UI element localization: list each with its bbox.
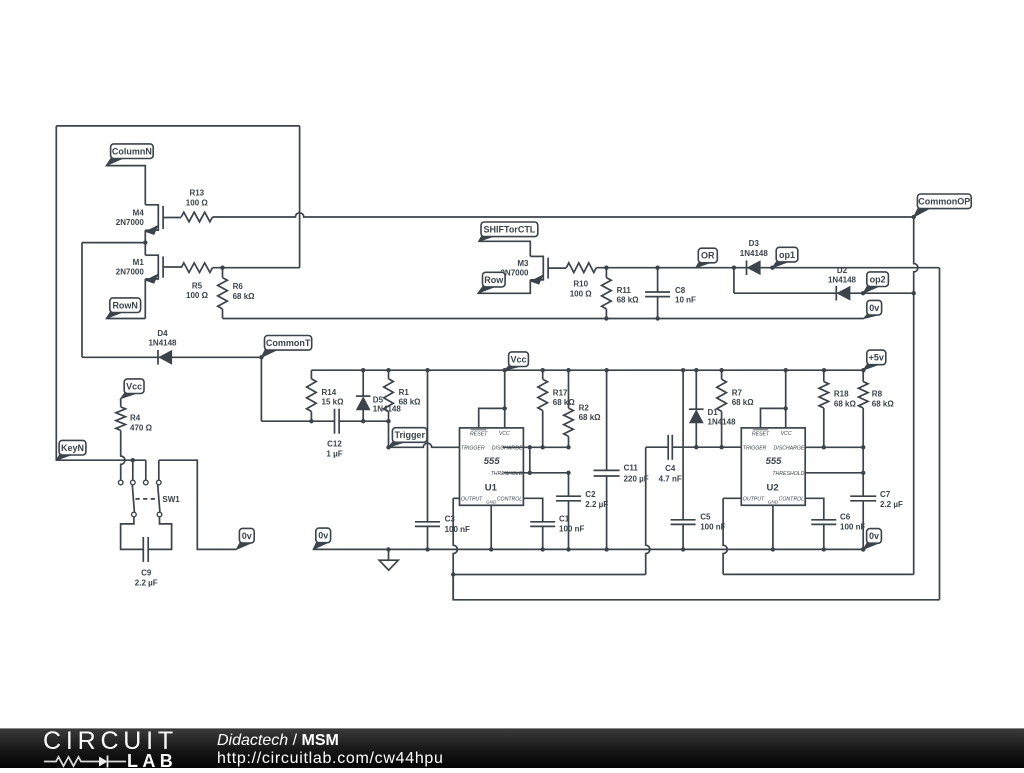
svg-text:555: 555 [766,456,783,467]
node Vcc flag at R4 [121,392,138,399]
op-amp U1 555 timer box [460,428,524,505]
resistor R7 68 kOhm [721,370,723,379]
node RowN flag [106,311,123,319]
resistor R10 100 Ohm [566,263,596,273]
capacitor C6 100 nF [811,519,836,521]
svg-text:RESET: RESET [752,431,770,437]
switch SW1 pushbutton [132,460,134,480]
svg-text:C2: C2 [585,490,596,499]
svg-text:15 kΩ: 15 kΩ [322,398,345,407]
wire U2 CONTROL to C6 [805,498,824,520]
node ColumnN flag [106,157,123,166]
junction Trigger node [386,445,390,449]
diode D5 1N4148 [362,370,364,396]
svg-text:2N7000: 2N7000 [116,218,145,227]
svg-text:GND: GND [768,499,779,504]
svg-text:VCC: VCC [781,431,792,437]
svg-text:CONTROL: CONTROL [497,497,522,503]
junction CommonT node [259,355,263,359]
capacitor C7 2.2uF [850,495,876,497]
svg-text:D3: D3 [749,239,760,248]
capacitor C9 2.2uF [142,537,144,562]
svg-text:2N7000: 2N7000 [116,268,145,277]
svg-text:M4: M4 [133,208,145,217]
resistor R1 68 kOhm [388,370,390,379]
wire U1 RESET jumper to VCC [479,408,505,428]
wire R8 column threshold to C7 [862,447,864,496]
junction op2 row / CommonOP vertical [912,291,916,295]
wire R10 to OR row [596,267,734,269]
svg-text:100 Ω: 100 Ω [570,289,593,298]
svg-text:op2: op2 [870,274,886,284]
svg-text:100 Ω: 100 Ω [186,291,209,300]
node 0v flag at switch [236,541,252,549]
wire KeyN row [56,459,146,461]
junction R5/R6 node [220,266,224,270]
junction 0v right node [861,547,865,551]
ground symbol [388,549,390,560]
wire U1 CONTROL to C1 [523,498,542,522]
svg-text:4.7 nF: 4.7 nF [659,475,682,484]
svg-text:470 Ω: 470 Ω [130,423,153,432]
wire 0v main rail [313,548,863,550]
svg-text:C5: C5 [700,513,711,522]
svg-text:R11: R11 [617,286,632,295]
wire switch poles to C9 box [121,517,144,550]
svg-text:CommonOP: CommonOP [918,197,970,207]
diode D2 1N4148 [835,286,837,301]
wire output branch to C4 vertical [453,574,646,576]
node Vcc flag mid rail [505,365,522,371]
junction M4/M1 node [143,240,147,244]
svg-text:220 µF: 220 µF [624,475,649,484]
node KeyN flag [56,453,72,460]
junction U1 output branch [451,572,455,576]
resistor R18 68 kOhm [823,370,825,381]
wire C4-left vertical (hop over 0v rail) [646,447,650,574]
svg-text:C9: C9 [141,569,152,578]
wire D2 row [733,268,735,294]
wire U1 THRESHOLD row [503,472,568,474]
node Row flag [478,285,496,293]
junction op2 anchor [861,291,865,295]
wire R14/C12/D5/R1 bottom row [261,420,334,422]
wire 0v rail from R6 bottom to mid 0v flag [223,318,864,320]
svg-text:0v: 0v [869,303,879,313]
footer text [217,732,444,767]
svg-text:OUTPUT: OUTPUT [461,497,483,503]
resistor R4 470 Ohm [120,399,122,407]
node 0v flag left [313,541,329,550]
svg-text:Row: Row [484,275,504,285]
wire U2 GND lead [772,505,774,549]
resistor R8 68 kOhm [862,370,864,382]
junction C8 bottom [655,316,659,320]
svg-text:10 nF: 10 nF [675,296,696,305]
wire M1 source down to RowN [144,279,146,319]
svg-text:C6: C6 [840,513,851,522]
svg-text:CommonT: CommonT [266,338,311,348]
svg-text:2.2 µF: 2.2 µF [135,578,158,587]
svg-text:R14: R14 [322,388,337,397]
svg-text:R4: R4 [130,414,141,423]
node CommonOP flag [914,207,931,217]
svg-text:R5: R5 [192,281,203,290]
svg-text:100 nF: 100 nF [445,525,470,534]
junction R14 bottom [309,419,313,423]
wire op1 row [734,267,940,269]
svg-text:RowN: RowN [112,300,138,310]
svg-text:TRIGGER: TRIGGER [461,446,485,452]
svg-text:SW1: SW1 [162,495,180,504]
transistor M1 2N7000 [145,254,158,256]
svg-text:+5v: +5v [869,353,884,363]
junction U2 reset/vcc [784,406,788,410]
wire U1 OUTPUT down (hop over 0v rail) [453,497,459,499]
node +5v flag [863,363,879,370]
svg-text:2.2 µF: 2.2 µF [880,500,903,509]
wire SHIFTorCTL to M3 drain [479,241,531,256]
op-amp U2 555 timer box [741,428,805,505]
node op2 flag [863,285,880,294]
svg-text:C8: C8 [675,286,686,295]
resistor R17 68 kOhm [542,370,544,379]
capacitor C8 10 nF [657,268,659,292]
node 0v flag right bottom [863,541,879,549]
logo squiggle diode [99,757,108,767]
svg-text:DISCHARGE: DISCHARGE [774,445,805,451]
wire U1 DISCHARGE row [502,446,568,448]
transistor M4 2N7000 [145,204,158,206]
svg-text:C12: C12 [327,440,342,449]
junction R10/R11 node [604,266,608,270]
svg-text:D4: D4 [157,329,168,338]
wire discharge-threshold link [529,447,531,473]
svg-text:OR: OR [701,251,715,261]
svg-text:R10: R10 [573,280,588,289]
svg-text:1 µF: 1 µF [326,449,342,458]
svg-text:U1: U1 [485,483,498,494]
svg-text:555: 555 [484,456,501,467]
resistor R13 100 Ohm [181,212,212,222]
svg-text:C4: C4 [665,464,676,473]
diode D1 1N4148 [695,370,697,409]
svg-text:ColumnN: ColumnN [112,146,152,156]
resistor R6 68 kOhm [222,268,224,278]
svg-text:100 nF: 100 nF [700,522,725,531]
transistor M3 2N7000 [530,255,543,257]
wire switch right terminal to 0v [159,460,237,549]
svg-text:VCC: VCC [499,431,510,437]
svg-text:C1: C1 [559,515,570,524]
svg-text:D5: D5 [373,395,384,404]
svg-text:C7: C7 [880,490,891,499]
wire U1 output bottom run to op1 vertical [453,575,939,600]
capacitor C12 1uF [334,409,336,434]
capacitor C5 100 nF [682,370,684,520]
svg-text:68 kΩ: 68 kΩ [834,399,857,408]
wire U2 output run to CommonOP vertical [723,573,914,575]
wire U2 RESET jumper to VCC [761,408,786,428]
resistor R2 68 kOhm [568,370,570,408]
svg-text:R8: R8 [872,390,883,399]
svg-text:R18: R18 [834,390,849,399]
wire R1 bottom to Trigger node [388,421,390,447]
svg-text:op1: op1 [779,250,795,260]
svg-text:100 Ω: 100 Ω [186,199,209,208]
wire U1 GND lead [490,505,492,549]
wire left branch vertical down to D4 row [81,243,83,358]
svg-text:68 kΩ: 68 kΩ [233,292,256,301]
capacitor C1 100 nF [530,521,555,523]
svg-text:M1: M1 [133,258,145,267]
svg-text:TRIGGER: TRIGGER [743,446,767,452]
svg-text:0v: 0v [318,531,328,541]
wire ColumnN to M4 drain [106,166,145,205]
capacitor C2 2.2uF [568,473,570,496]
svg-text:M3: M3 [517,259,529,268]
svg-text:68 kΩ: 68 kΩ [579,413,602,422]
svg-text:THRESHOLD: THRESHOLD [491,471,523,477]
svg-text:Vcc: Vcc [510,354,526,364]
svg-text:Trigger: Trigger [394,430,425,440]
junction C8 top [655,266,659,270]
svg-text:CONTROL: CONTROL [779,497,804,503]
node 0v flag mid (C8 rail) [864,313,880,319]
wire R13 output long run to CommonOP (hop over frame vertical) [213,213,914,217]
resistor R14 15 kOhm [310,370,312,379]
logo squiggle resistor [44,757,99,766]
wire Row to M3 source [478,280,531,294]
svg-text:R2: R2 [579,403,590,412]
junction KeyN switch branch [131,458,135,462]
capacitor C3 100 nF [427,370,429,522]
junction R1 bottom / trigger branch [386,419,390,423]
wire U2 OUTPUT down (hop over 0v rail) [723,497,741,499]
svg-text:R6: R6 [233,282,244,291]
svg-text:100 nF: 100 nF [840,522,865,531]
svg-text:1N4148: 1N4148 [148,338,177,347]
svg-text:R13: R13 [189,189,204,198]
svg-text:R17: R17 [553,388,568,397]
svg-text:1N4148: 1N4148 [828,276,857,285]
junction op1 anchor [770,266,774,270]
wire branch left from M4/M1 node [82,242,145,244]
junction R11 bottom [604,316,608,320]
svg-text:68 kΩ: 68 kΩ [553,398,576,407]
svg-text:68 kΩ: 68 kΩ [872,399,895,408]
node SHIFTorCTL flag [479,235,494,242]
junction CommonOP node [912,215,916,219]
wire RowN horizontal [106,318,145,320]
wire U1 VCC lead [504,370,506,428]
wire CommonOP vertical down (hop over op1 row) [914,217,918,574]
svg-text:OUTPUT: OUTPUT [743,497,765,503]
svg-text:0v: 0v [869,531,879,541]
junction U1 reset/vcc [503,406,507,410]
svg-text:Vcc: Vcc [126,381,142,391]
wire R4 lead hops over KeyN row down to switch [121,430,125,480]
svg-text:R7: R7 [732,388,743,397]
node CommonT flag [261,348,277,357]
wire U2 VCC lead [785,370,787,428]
wire M4 source to M1 drain with branch [144,230,146,255]
svg-text:U2: U2 [767,483,779,494]
wire op1 branch vertical down to U1 output run [939,268,941,600]
wire Trigger row to U1 (hop over C3) [389,443,460,447]
svg-text:68 kΩ: 68 kΩ [732,398,755,407]
svg-text:RESET: RESET [470,431,488,437]
svg-text:SHIFTorCTL: SHIFTorCTL [483,225,535,235]
diode D4 1N4148 [82,356,261,358]
node Trigger flag [389,440,406,447]
svg-text:D2: D2 [837,266,848,275]
wire Vcc/+5v power rail [311,369,863,371]
diode D3 1N4148 [746,260,748,275]
svg-text:1N4148: 1N4148 [740,249,769,258]
node OR flag [696,261,712,268]
svg-text:DISCHARGE: DISCHARGE [492,445,523,451]
svg-text:R1: R1 [399,388,410,397]
wire outer frame right vertical down to R5 output [299,126,301,268]
CircuitLab logo [43,731,178,756]
wire outer frame top horizontal [56,125,299,127]
resistor R11 68 kOhm [605,268,607,278]
junction D5 bottom [361,419,365,423]
junction D1 bottom [694,445,698,449]
wire outer frame left vertical (KeyN to top) [55,126,57,460]
svg-text:68 kΩ: 68 kΩ [617,296,640,305]
footer bar [0,728,1024,768]
svg-text:2.2 µF: 2.2 µF [585,500,608,509]
resistor R5 100 Ohm [181,263,212,273]
capacitor C4 4.7 nF [667,435,669,460]
svg-text:100 nF: 100 nF [559,524,584,533]
svg-text:THRESHOLD: THRESHOLD [772,471,804,477]
wire U2 DISCHARGE row [805,446,864,448]
wire U2 THRESHOLD row [805,472,864,474]
svg-text:68 kΩ: 68 kΩ [399,398,422,407]
svg-text:0v: 0v [242,531,252,541]
wire CommonT down to R14/C12 row [260,357,262,421]
junction D2 branch node [732,266,736,270]
capacitor C11 220uF [606,370,608,470]
svg-text:C11: C11 [624,464,639,473]
junction R7 bottom [719,445,723,449]
svg-text:GND: GND [486,499,497,504]
wire R5 output to frame vertical [213,267,300,269]
node op1 flag [772,260,789,268]
svg-text:KeyN: KeyN [61,443,84,453]
